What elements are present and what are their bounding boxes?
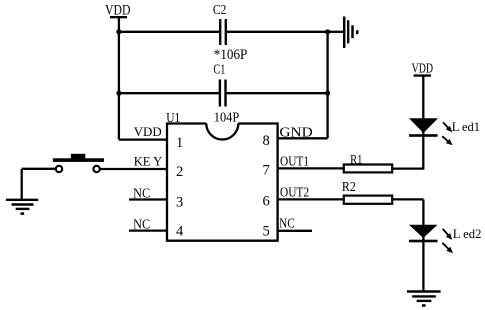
wire button left [22, 168, 56, 170]
LED1 emission arrows [442, 122, 452, 145]
earth ground (top right, rotated) [344, 17, 358, 49]
svg-text:OUT1: OUT1 [280, 153, 309, 168]
junction at right rail / C1 wire [325, 91, 330, 96]
wire R1 right to LED1 [392, 167, 423, 169]
wire pin 7 OUT1 to R1 [278, 167, 344, 169]
svg-text:NC: NC [279, 216, 295, 231]
junction at right rail / C2 wire [325, 29, 330, 34]
ground (bottom right) [407, 292, 441, 307]
svg-text:OUT2: OUT2 [280, 184, 309, 199]
svg-text:C1: C1 [213, 62, 225, 77]
svg-text:R2: R2 [342, 179, 356, 194]
svg-text:NC: NC [133, 217, 150, 232]
svg-text:KE Y: KE Y [134, 153, 163, 168]
svg-text:VDD: VDD [134, 124, 162, 139]
ground (left) [6, 200, 38, 215]
svg-text:L ed2: L ed2 [453, 226, 482, 241]
svg-text:104P: 104P [214, 110, 240, 125]
power symbol VDD (top-left) [105, 3, 131, 32]
svg-text:R1: R1 [350, 152, 362, 167]
wire C2 left [119, 31, 220, 33]
LED D1 [409, 118, 438, 137]
junction at VDD rail / C2 wire [116, 29, 121, 34]
svg-text:VDD: VDD [412, 61, 434, 76]
wire right rail vertical [326, 32, 328, 139]
resistor R1 [344, 152, 392, 173]
capacitor C2 [213, 2, 226, 45]
wire R2 right to LED2 [392, 198, 423, 200]
wire pin 4 stub [129, 229, 167, 231]
svg-text:8: 8 [263, 133, 270, 149]
svg-text:L ed1: L ed1 [452, 119, 480, 134]
LED D2 [409, 225, 438, 243]
push button S1 [53, 154, 104, 172]
wire VDD to LED1 and down to R1 wire [422, 76, 424, 170]
capacitor C1 [213, 62, 225, 107]
wire C1 right [226, 92, 327, 94]
svg-text:2: 2 [176, 164, 183, 180]
wire pin 8 GND to right rail [278, 137, 328, 139]
resistor R2 [342, 179, 392, 204]
wire to left ground [21, 169, 23, 200]
svg-text:3: 3 [176, 195, 183, 211]
wire C1 left [119, 92, 219, 94]
wire button right to pin 2 [100, 168, 167, 170]
svg-text:*106P: *106P [214, 47, 248, 63]
svg-text:NC: NC [133, 185, 150, 200]
junction at VDD rail / C1 wire [116, 91, 121, 96]
LED2 emission arrows [442, 229, 453, 253]
svg-text:U1: U1 [166, 111, 180, 126]
wire C2 right [227, 31, 328, 33]
svg-text:4: 4 [176, 223, 184, 239]
power symbol VDD (right) [412, 61, 434, 76]
wire LED2 branch vertical down to ground [422, 199, 424, 291]
wire to earth ground (top right) [328, 31, 343, 33]
IC U1 [166, 111, 277, 241]
wire VDD rail left vertical [118, 32, 120, 140]
svg-text:7: 7 [263, 163, 270, 179]
wire pin 6 OUT2 to R2 [278, 198, 344, 200]
wire pin1 (VDD rail to IC) [119, 138, 167, 140]
wire pin 3 stub [129, 198, 167, 200]
svg-text:C2: C2 [213, 2, 226, 17]
svg-text:5: 5 [263, 223, 270, 239]
wire pin 5 stub [278, 230, 312, 232]
svg-text:1: 1 [176, 135, 183, 151]
svg-text:6: 6 [263, 194, 270, 210]
